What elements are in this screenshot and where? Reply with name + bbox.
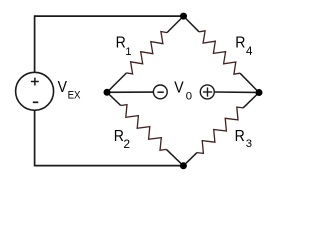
voltage source V_EX circle <box>16 72 54 110</box>
svg-text:R: R <box>116 34 126 52</box>
wire middle right <box>214 91 259 94</box>
node top <box>180 13 187 20</box>
resistor R4 stub lower <box>240 73 259 92</box>
node bottom <box>180 162 187 169</box>
terminal minus sign <box>157 91 163 93</box>
resistor R2 stub upper <box>107 92 121 105</box>
resistor R1 zigzag <box>127 32 168 74</box>
resistor R4 stub upper <box>184 16 200 32</box>
resistor R4 zigzag <box>199 31 240 74</box>
node left <box>104 89 111 96</box>
terminal plus circle <box>200 85 214 99</box>
terminal plus sign <box>203 87 212 96</box>
resistor R3 zigzag <box>197 107 243 153</box>
svg-text:0: 0 <box>186 91 192 103</box>
wire middle left <box>107 91 154 93</box>
svg-text:R: R <box>235 127 245 145</box>
svg-text:V: V <box>174 79 183 97</box>
wire bottom horizontal <box>35 165 184 167</box>
resistor R3 stub upper <box>243 93 259 108</box>
resistor R3 stub lower <box>183 153 197 166</box>
svg-text:1: 1 <box>125 46 131 58</box>
terminal minus circle <box>153 85 167 99</box>
svg-text:2: 2 <box>123 137 130 151</box>
svg-text:R: R <box>235 34 245 52</box>
wire left vertical lower <box>34 110 36 166</box>
resistor R2 zigzag <box>121 105 167 151</box>
svg-text:V: V <box>58 78 67 96</box>
wire left vertical upper <box>34 15 36 72</box>
resistor R1 stub lower <box>107 73 127 92</box>
resistor R2 stub lower <box>166 149 183 165</box>
svg-text:3: 3 <box>246 138 252 150</box>
resistor R1 stub upper <box>167 16 184 32</box>
node right <box>256 89 263 96</box>
wire top horizontal <box>35 15 184 17</box>
voltage source plus sign <box>31 78 39 86</box>
svg-text:4: 4 <box>246 46 253 58</box>
voltage source minus sign <box>33 101 39 103</box>
svg-text:EX: EX <box>68 90 81 102</box>
